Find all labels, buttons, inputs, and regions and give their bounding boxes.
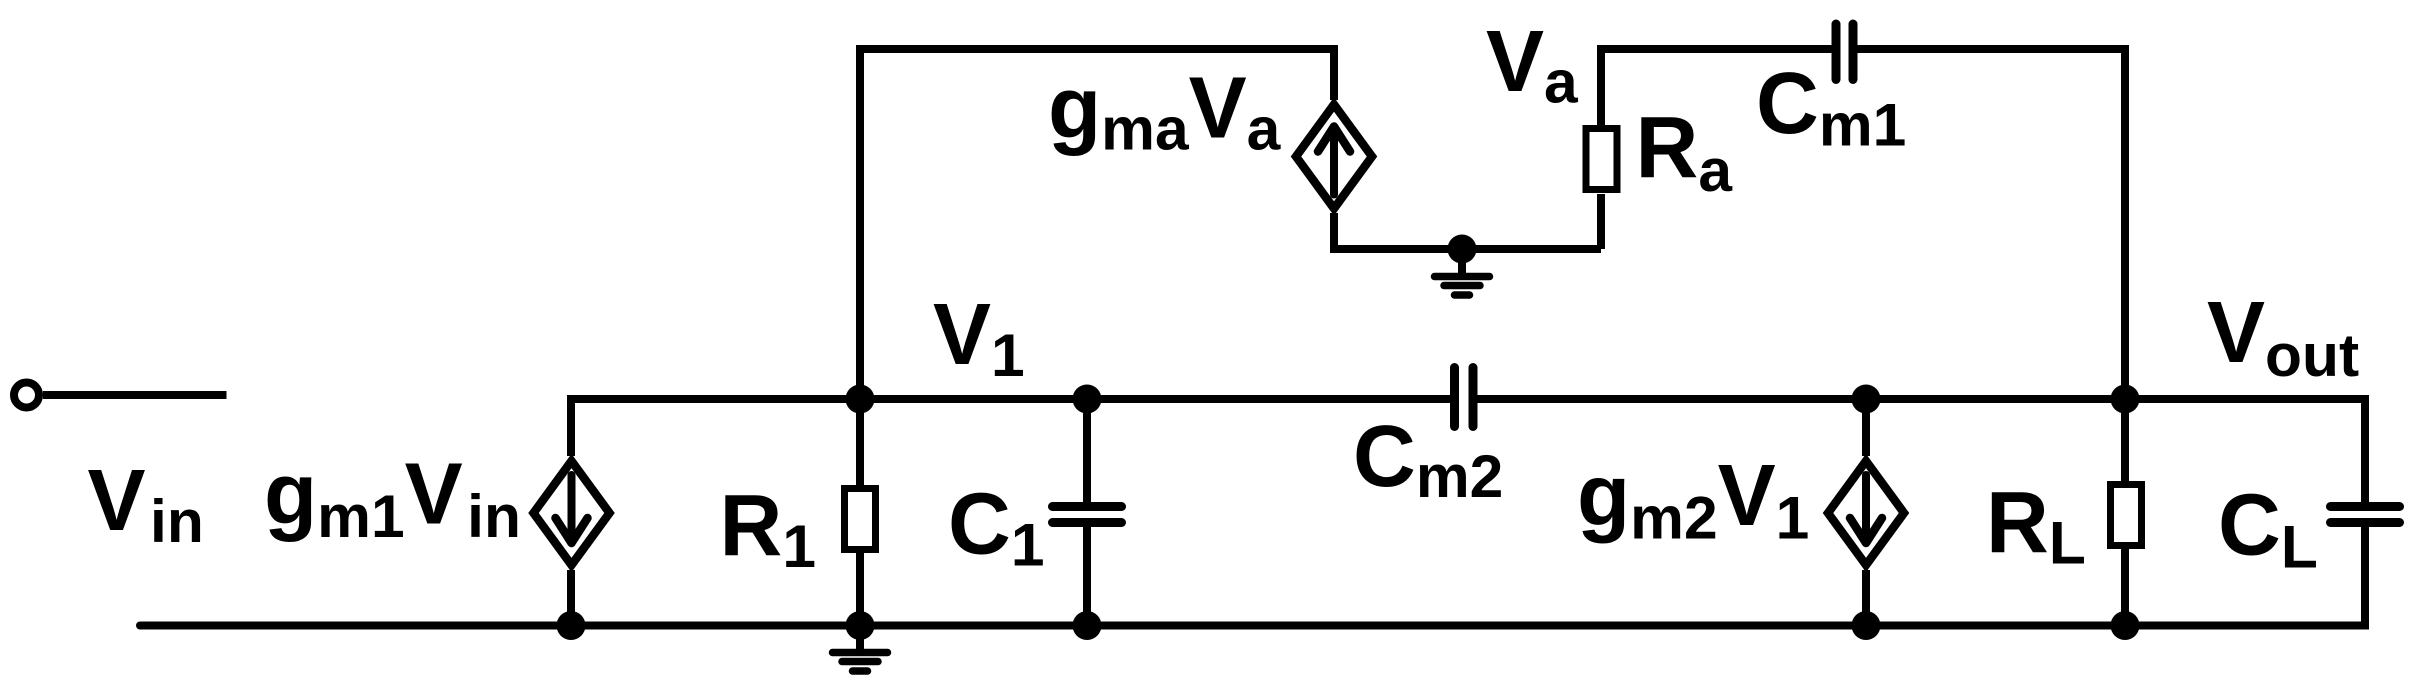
wire gma top stub (1330, 45, 1338, 100)
wire Ra to top rail (1601, 49, 1832, 127)
wire mid rail left of Cm2 (860, 395, 1450, 403)
node gm1 bottom junction dot (557, 611, 586, 640)
svg-text:Vout: Vout (2207, 284, 2359, 389)
svg-text:gm1Vin: gm1Vin (264, 446, 521, 551)
svg-text:Va: Va (1486, 13, 1579, 116)
svg-text:RL: RL (1986, 475, 2086, 577)
capacitor Cm2 plates (1455, 368, 1474, 427)
wire R1 top stub (856, 399, 864, 487)
svg-text:Cm2: Cm2 (1353, 408, 1503, 510)
capacitor CL plates (2331, 507, 2400, 523)
svg-text:Ra: Ra (1636, 100, 1734, 205)
wire mid rail right of Cm2 (1478, 395, 2366, 403)
capacitor Cm1 plates (1836, 24, 1853, 80)
wire gma bottom + horizontal to Ra (1334, 213, 1601, 249)
svg-text:Vin: Vin (88, 452, 204, 555)
svg-text:gmaVa: gmaVa (1048, 60, 1282, 163)
node C1 top junction dot (1073, 385, 1102, 414)
wire top rail right section (1858, 45, 2126, 53)
svg-text:R1: R1 (720, 478, 817, 581)
current source gm1 Vin diamond (534, 461, 610, 565)
svg-text:V1: V1 (933, 286, 1025, 389)
input terminal circle (14, 383, 39, 408)
gm2 arrow (down) (1850, 475, 1882, 543)
wire bottom rail (140, 622, 2365, 630)
wire R1 bottom stub (856, 551, 864, 626)
svg-text:CL: CL (2218, 477, 2318, 581)
svg-text:gm2V1: gm2V1 (1577, 447, 1809, 552)
node RL bottom junction dot (2111, 611, 2140, 640)
ground (bottom, below R1) (856, 626, 864, 650)
wire CL top stub (2361, 395, 2369, 505)
wire C1 top stub (1083, 399, 1091, 505)
svg-text:Cm1: Cm1 (1756, 55, 1906, 159)
wire Vout riser (top rail to Vout node) (2121, 45, 2129, 399)
current source gma Va diamond (1296, 105, 1372, 209)
wire Ra top stub (1597, 194, 1605, 249)
wire gm1 top horizontal (571, 399, 860, 456)
wire top rail left section (856, 45, 1334, 53)
node gm2 top junction dot (1852, 385, 1881, 414)
wire vertical V1 riser (top rail to V1 node) (856, 49, 864, 399)
wire CL bottom stub (2361, 524, 2369, 630)
svg-text:C1: C1 (948, 476, 1045, 579)
node gm2 bottom junction dot (1852, 611, 1881, 640)
wire input stub (43, 391, 227, 399)
gma arrow (up) (1318, 127, 1350, 195)
capacitor C1 plates (1053, 507, 1122, 523)
wire C1 bottom stub (1083, 524, 1091, 626)
resistor R1 (845, 489, 876, 550)
wire gm2 top stub (1862, 399, 1870, 456)
gm1 arrow (down) (556, 475, 588, 543)
node V1 junction dot (846, 385, 875, 414)
wire gm1 bottom (567, 570, 575, 626)
wire RL top stub (2121, 399, 2129, 484)
wire gm2 bottom stub (1862, 570, 1870, 626)
resistor RL (2111, 485, 2142, 546)
resistor Ra (1586, 129, 1617, 190)
node Vout junction dot (2111, 385, 2140, 414)
node top ground junction dot (1448, 235, 1477, 264)
current source gm2 V1 diamond (1828, 461, 1904, 565)
wire RL bottom stub (2121, 548, 2129, 626)
node C1 bottom junction dot (1073, 611, 1102, 640)
node R1 bottom junction dot (846, 611, 875, 640)
ground (top, at gma/Ra junction) (1458, 249, 1466, 273)
